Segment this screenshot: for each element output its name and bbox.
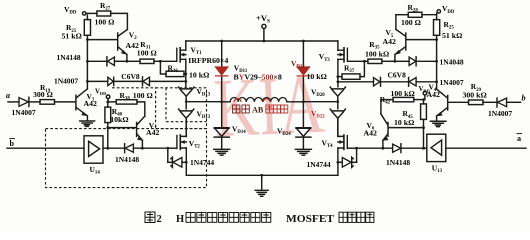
- resistor R35: [364, 59, 395, 63]
- svg-text:300 kΩ: 300 kΩ: [463, 91, 487, 100]
- svg-text:2: 2: [157, 214, 162, 225]
- wire right rail: [436, 40, 438, 89]
- diode 1N4007 row2: [108, 77, 143, 85]
- svg-text:1N4148: 1N4148: [57, 53, 81, 62]
- caption figure 2 chinese: [145, 212, 155, 223]
- wire node B column mid: [302, 77, 304, 102]
- svg-text:1N4007: 1N4007: [488, 109, 512, 118]
- power V_DD terminal left: [83, 12, 97, 15]
- svg-text:10 kΩ: 10 kΩ: [189, 71, 209, 80]
- node rail-left V2 base: [86, 38, 89, 41]
- wire VT4 gate: [348, 147, 357, 149]
- wire row2 right: [416, 81, 437, 83]
- resistor R28: [396, 12, 437, 17]
- resistor R31: [127, 59, 160, 63]
- node Vdd mid-left: [106, 101, 109, 104]
- node R37 source: [337, 75, 340, 78]
- resistor R19: [40, 100, 75, 105]
- svg-text:100 kΩ: 100 kΩ: [365, 50, 389, 59]
- node zener chain left: [185, 100, 188, 103]
- wire VT3 source: [337, 59, 339, 87]
- zener V_D13 lower: [179, 109, 194, 136]
- svg-text:100 Ω: 100 Ω: [133, 91, 153, 100]
- zener V_D13 upper: [179, 87, 194, 109]
- svg-text:A42: A42: [84, 99, 98, 108]
- svg-text:1N4048: 1N4048: [440, 57, 464, 66]
- zener V_D22: [330, 109, 345, 136]
- node rail-left row2: [86, 80, 89, 83]
- resistor R38: [108, 100, 145, 117]
- node U14 out: [106, 147, 109, 150]
- svg-text:1N4744: 1N4744: [307, 160, 331, 169]
- node V6 emitter: [382, 147, 385, 150]
- wire V_D24 branch: [302, 102, 304, 150]
- wire row2 left: [87, 80, 107, 82]
- zener C6V8 left: [143, 77, 187, 86]
- zener 1N4744 left: [168, 148, 187, 167]
- wire input b: [507, 101, 521, 103]
- svg-text:A42: A42: [383, 37, 397, 46]
- node V3 emitter: [141, 147, 144, 150]
- node V6 base tap: [422, 126, 425, 129]
- inductor motor winding: [222, 98, 304, 102]
- wire +Vs bus: [186, 40, 338, 42]
- diode 1N4007 input b: [483, 98, 507, 107]
- arrow V5 emitter: [395, 50, 400, 54]
- MOSFET VT3: [338, 41, 348, 62]
- svg-text:1N4148: 1N4148: [386, 158, 410, 167]
- wire V6 emitter row: [357, 147, 393, 149]
- svg-text:10 kΩ: 10 kΩ: [307, 72, 327, 81]
- resistor R36: [160, 61, 185, 76]
- buffer U13: [427, 134, 446, 161]
- diode 1N4148 driver right: [393, 144, 427, 153]
- arrow V6 emitter: [383, 137, 388, 141]
- wire node B column top: [302, 41, 304, 67]
- svg-text:1N4744: 1N4744: [190, 158, 214, 167]
- svg-text:100 Ω: 100 Ω: [137, 49, 157, 58]
- svg-text:AB: AB: [252, 106, 264, 115]
- wire node A to zener chain: [186, 101, 222, 103]
- wire bottom rail: [186, 174, 338, 176]
- node bus-Vs: [263, 40, 266, 43]
- wire V5 base: [406, 39, 436, 41]
- MOSFET VT2: [177, 118, 186, 176]
- node 1N4744R source: [337, 161, 340, 164]
- svg-text:1N4007: 1N4007: [440, 78, 464, 87]
- node A: [220, 100, 223, 103]
- transistor V5: [395, 15, 406, 62]
- svg-text:1N4007: 1N4007: [54, 76, 78, 85]
- resistor R40: [105, 102, 111, 148]
- node B: [302, 100, 305, 103]
- transistor V2: [118, 29, 128, 61]
- zener V_D20: [330, 87, 345, 109]
- svg-text:b: b: [10, 139, 15, 148]
- svg-text:C6V8: C6V8: [121, 72, 140, 81]
- node bus-A: [220, 40, 223, 43]
- svg-text:C6V8: C6V8: [388, 70, 407, 79]
- svg-text:H: H: [176, 214, 184, 225]
- node R35-R37: [363, 60, 366, 63]
- svg-text:100 Ω: 100 Ω: [401, 18, 421, 27]
- svg-text:MOSFET: MOSFET: [286, 214, 334, 225]
- wire output a-bar: [446, 147, 526, 149]
- svg-text:BYV29–500×8: BYV29–500×8: [234, 73, 282, 82]
- wire input a: [8, 101, 19, 103]
- svg-text:10 kΩ: 10 kΩ: [394, 118, 414, 127]
- svg-text:b: b: [522, 94, 526, 103]
- wire VT2 gate: [168, 147, 177, 149]
- svg-text:51 kΩ: 51 kΩ: [62, 32, 82, 41]
- label motor winding chinese: [233, 105, 250, 113]
- resistor R25 left: [84, 15, 90, 39]
- node rail-left row1: [86, 60, 89, 63]
- svg-text:a: a: [6, 91, 10, 100]
- power V_DD terminal right: [437, 10, 440, 13]
- wire node A column mid: [221, 77, 223, 102]
- diode 1N4148 driver left: [125, 144, 168, 153]
- wire node B to zener chain: [303, 101, 337, 103]
- node VT4 gate: [355, 147, 358, 150]
- svg-text:a: a: [517, 134, 521, 143]
- resistor R45: [421, 100, 427, 149]
- wire row1 right: [416, 60, 436, 62]
- transistor V6: [381, 114, 424, 148]
- zener C6V8 right: [338, 77, 381, 86]
- node VT2 gate: [166, 147, 169, 150]
- wire input b-bar: [7, 147, 84, 149]
- power V_DD terminal mid-right: [423, 91, 427, 99]
- diode 1N4048: [395, 57, 416, 66]
- node V3 base tap: [106, 126, 109, 129]
- node bottom gnd: [260, 174, 263, 177]
- ground under V_D24: [295, 149, 311, 155]
- label b-bar input: [9, 139, 15, 148]
- resistor R37: [338, 61, 365, 79]
- arrow V2 emitter: [122, 50, 127, 54]
- svg-text:1N4007: 1N4007: [12, 108, 36, 117]
- resistor R42: [381, 97, 424, 114]
- wire VT1 source: [185, 59, 187, 87]
- node bus-B: [302, 40, 305, 43]
- svg-text:100 kΩ: 100 kΩ: [391, 89, 415, 98]
- diode V_D12 red: [297, 67, 309, 76]
- arrow V1 emitter: [82, 112, 88, 116]
- diode V_D14: [214, 128, 229, 137]
- node row2 source right: [337, 80, 340, 83]
- svg-text:51 kΩ: 51 kΩ: [442, 31, 462, 40]
- resistor R29: [448, 100, 483, 105]
- svg-text:A42: A42: [146, 128, 160, 137]
- transistor V3: [108, 116, 145, 148]
- svg-text:A42: A42: [364, 129, 378, 138]
- node rail-right row2: [435, 80, 438, 83]
- transistor V4: [437, 89, 448, 121]
- svg-text:IRFPR60×4: IRFPR60×4: [188, 56, 228, 65]
- node R36 source: [184, 73, 187, 76]
- ground center bottom: [255, 175, 268, 196]
- node zener chain right: [337, 100, 340, 103]
- MOSFET VT4: [338, 118, 347, 176]
- node 1N4744L source: [185, 161, 188, 164]
- ground earth V1: [80, 121, 95, 126]
- svg-text:1N4148: 1N4148: [115, 155, 139, 164]
- node V5 emitter: [394, 60, 397, 63]
- node +Vs terminal: [262, 24, 266, 41]
- node R31-R36: [159, 60, 162, 63]
- zener 1N4744 right: [338, 148, 357, 167]
- wire VT3 gate row: [348, 60, 365, 62]
- diode 1N4007 row2 right: [381, 77, 417, 86]
- transistor V1: [76, 89, 88, 121]
- diode V_D24: [296, 128, 311, 137]
- wire R31 to VT1 gate: [160, 60, 176, 62]
- node V2 emitter: [126, 60, 129, 63]
- resistor R25 right: [434, 15, 440, 40]
- diode 1N4148 row1: [107, 57, 127, 66]
- wire V_D14 branch: [221, 102, 223, 150]
- buffer U14: [84, 136, 103, 163]
- wire left rail: [86, 40, 88, 89]
- svg-text:300 Ω: 300 Ω: [33, 90, 53, 99]
- resistor R27: [97, 11, 128, 29]
- node Vdd mid-right: [422, 98, 425, 101]
- MOSFET VT1: [177, 41, 186, 62]
- diode V_D11 red: [216, 67, 228, 76]
- node rail-right V5 base: [435, 38, 438, 41]
- node rail-right row1: [435, 60, 438, 63]
- svg-text:100 Ω: 100 Ω: [95, 18, 115, 27]
- node U13 out: [422, 147, 425, 150]
- ground earth V4: [430, 121, 446, 126]
- wire V2 base: [87, 39, 117, 41]
- wire row1 left: [87, 60, 107, 62]
- wire U14 output: [103, 147, 125, 149]
- svg-text:10kΩ: 10kΩ: [110, 115, 128, 124]
- wire node A column top: [221, 41, 223, 67]
- ground under V_D14: [214, 149, 230, 155]
- dashed box left driver: [46, 88, 207, 188]
- power V_DD terminal mid-left: [106, 95, 110, 102]
- label a-bar output: [517, 134, 523, 143]
- arrow V3 emitter: [138, 137, 143, 141]
- diode 1N4007 input a: [19, 97, 40, 106]
- arrow V4 emitter: [437, 112, 443, 116]
- node row2 source: [184, 80, 187, 83]
